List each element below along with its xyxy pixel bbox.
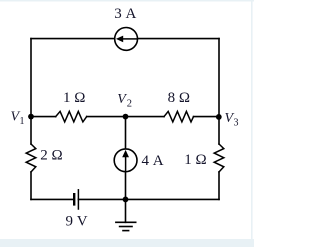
svg-text:9 V: 9 V (66, 214, 88, 230)
svg-text:3 A: 3 A (114, 6, 136, 22)
svg-text:1: 1 (20, 116, 25, 127)
svg-text:1 Ω: 1 Ω (184, 152, 206, 168)
svg-text:8 Ω: 8 Ω (168, 90, 190, 106)
svg-text:2: 2 (127, 99, 132, 110)
svg-text:2 Ω: 2 Ω (40, 148, 62, 164)
svg-text:3: 3 (234, 118, 239, 129)
svg-text:4 A: 4 A (142, 153, 164, 169)
svg-text:1 Ω: 1 Ω (63, 90, 85, 106)
svg-text:V: V (117, 92, 127, 107)
